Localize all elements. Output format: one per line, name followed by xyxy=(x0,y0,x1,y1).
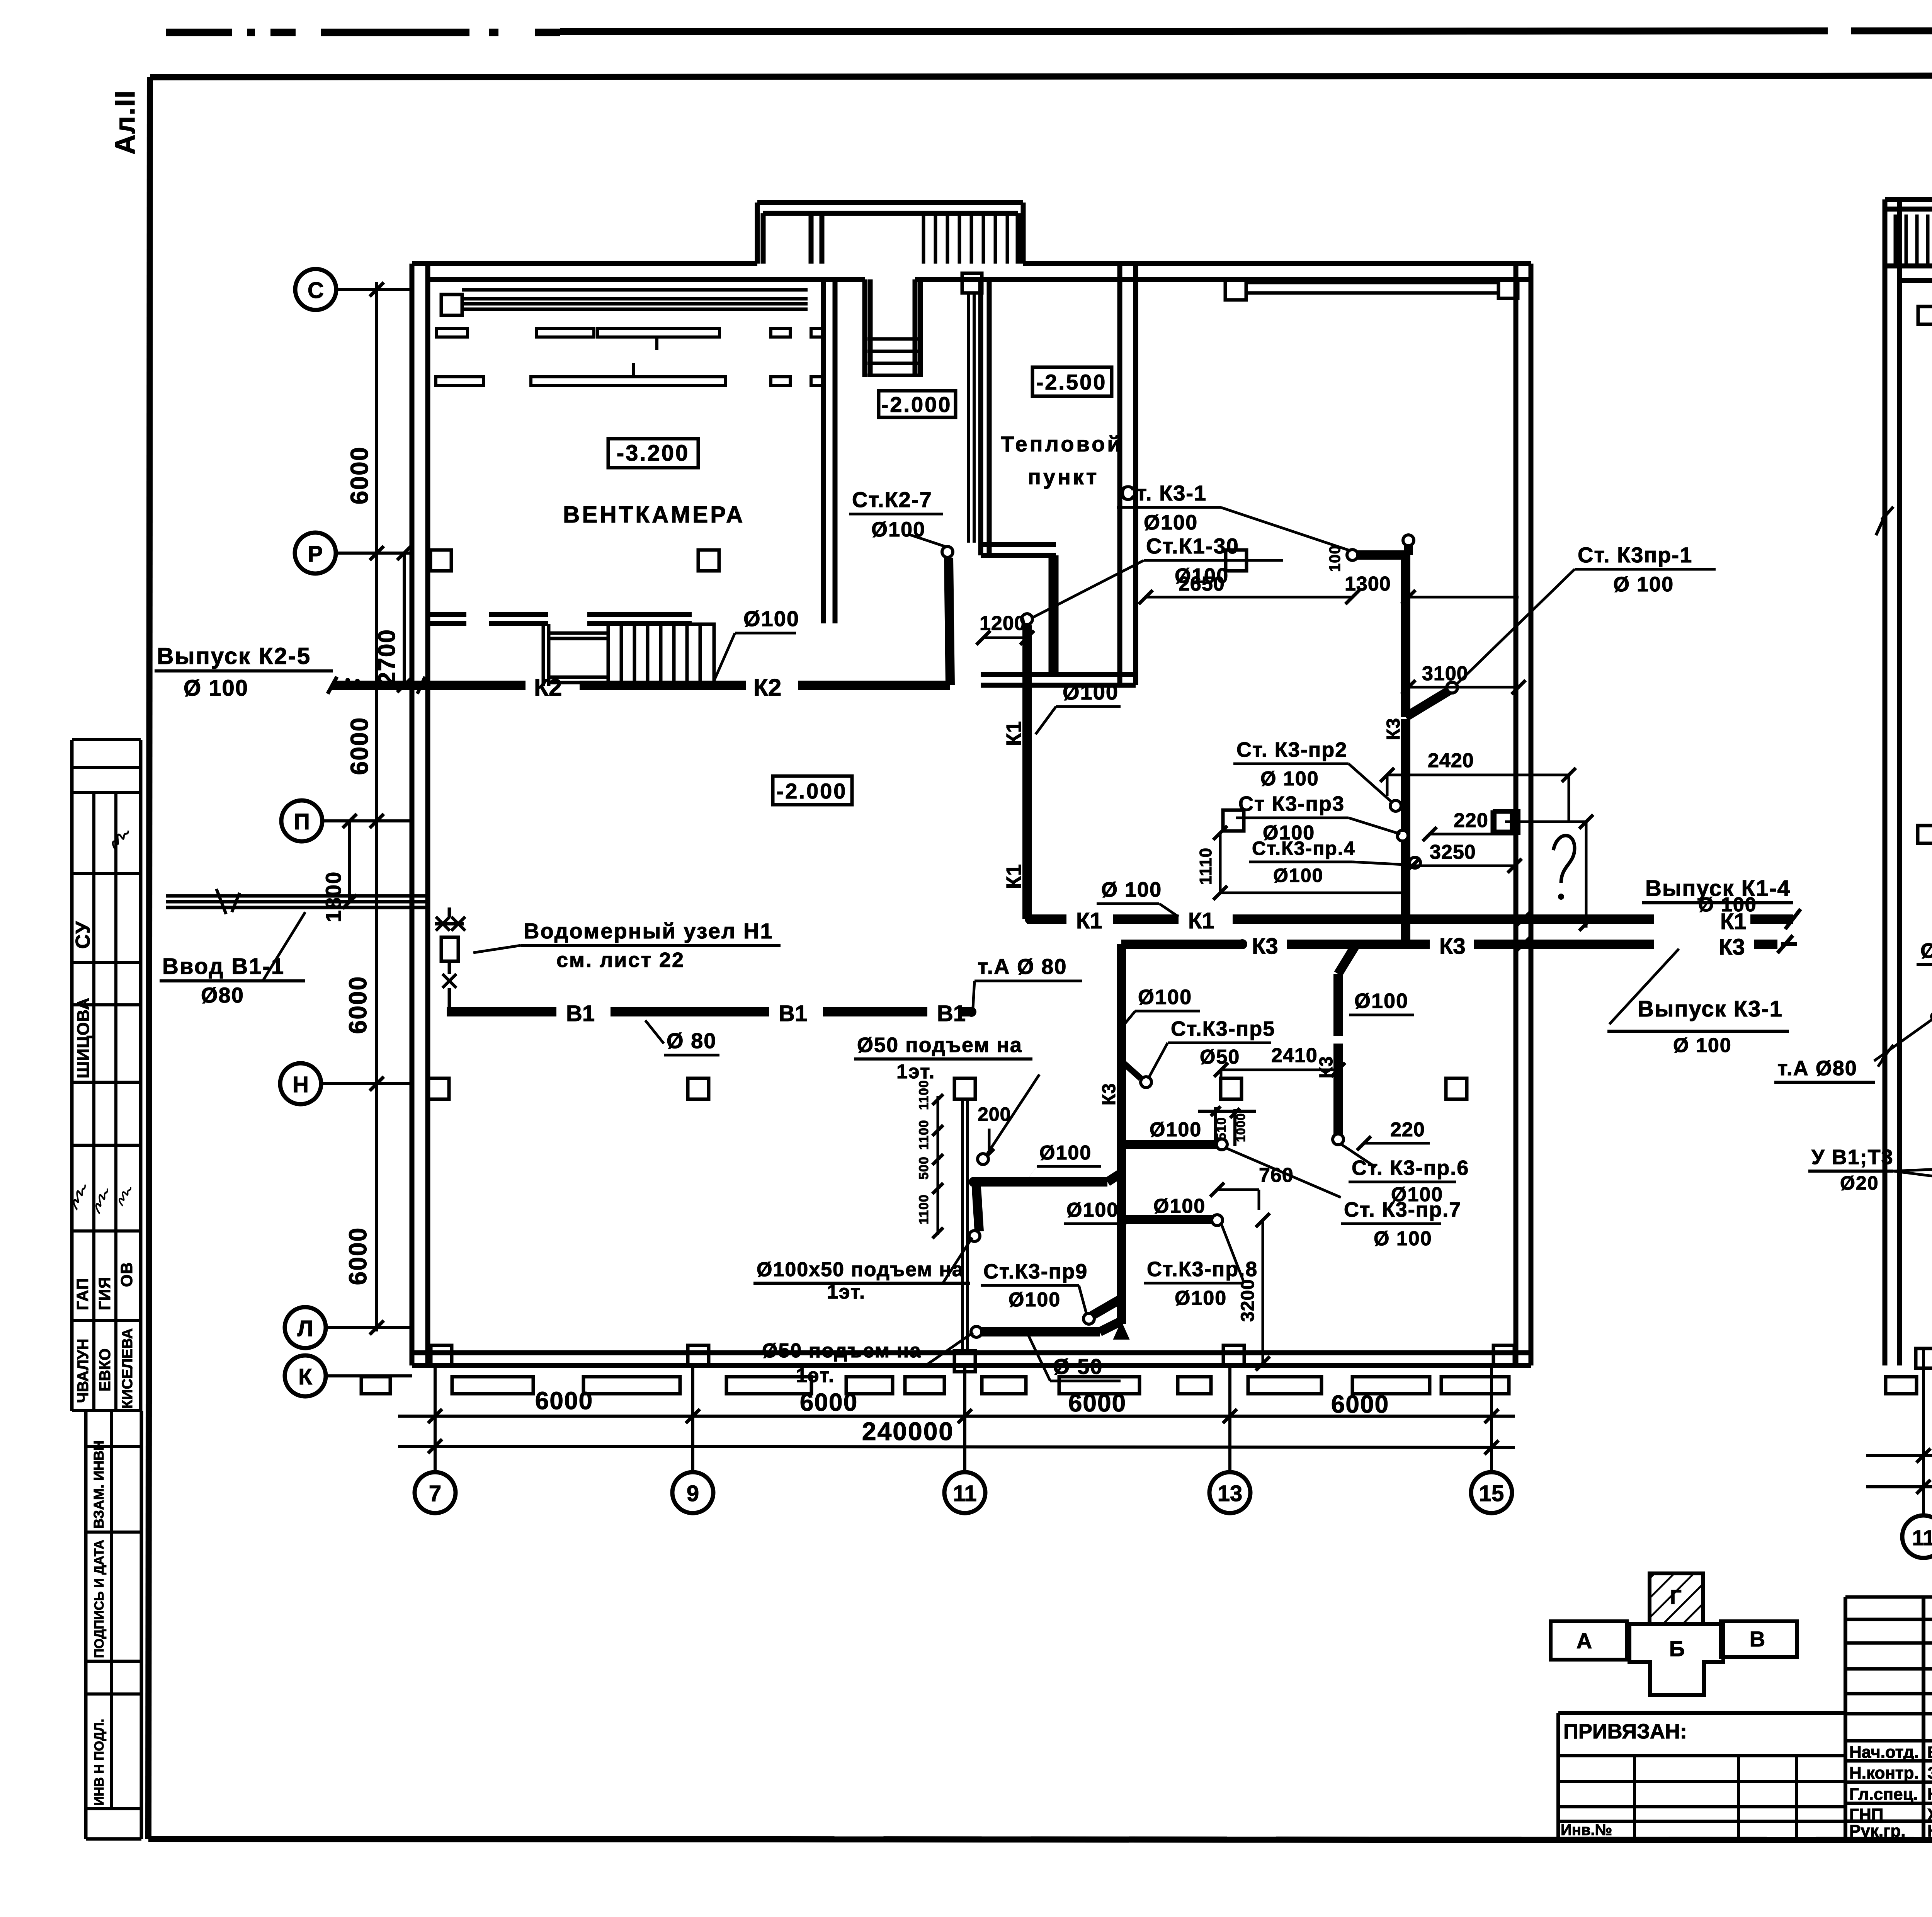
label St.K3-pr4 xyxy=(1249,838,1411,886)
column right wall with dim xyxy=(1495,811,1586,833)
title block personnel table xyxy=(1845,1597,1932,1839)
svg-text:Ø 100: Ø 100 xyxy=(1673,1034,1732,1057)
title block personnel names xyxy=(1849,1743,1932,1840)
label St.K3-pr.6 xyxy=(1341,1144,1469,1206)
svg-text:В1: В1 xyxy=(779,1001,807,1026)
svg-text:Н.контр.: Н.контр. xyxy=(1849,1764,1919,1783)
right plan foundation dashes xyxy=(1886,1377,1932,1394)
svg-text:К3: К3 xyxy=(1099,1083,1119,1105)
svg-text:Ø 80: Ø 80 xyxy=(667,1028,716,1053)
svg-text:К1: К1 xyxy=(1002,721,1026,746)
label St.K3-pr9 xyxy=(981,1260,1121,1324)
axis &#1053; xyxy=(280,1063,412,1104)
svg-text:Г: Г xyxy=(1670,1586,1681,1609)
svg-text:Тепловой: Тепловой xyxy=(1001,432,1123,456)
vent chamber plenum band xyxy=(441,290,808,315)
vent chamber stair xyxy=(543,624,714,686)
svg-text:К: К xyxy=(298,1364,312,1389)
svg-text:Ø100: Ø100 xyxy=(1354,989,1408,1013)
label St.K3-pr.7 xyxy=(1341,1198,1461,1250)
riser K1 vertical xyxy=(1002,614,1032,919)
bottom dimension line 6000 row xyxy=(398,1387,1515,1423)
svg-text:11: 11 xyxy=(953,1481,976,1506)
columns bottom row xyxy=(431,1345,1514,1366)
vent chamber bottom wall xyxy=(428,615,692,623)
dimension 1800 xyxy=(321,814,357,922)
svg-text:Ø100: Ø100 xyxy=(1273,865,1323,886)
svg-text:ПОДПИСЬ И ДАТА: ПОДПИСЬ И ДАТА xyxy=(92,1540,107,1658)
svg-text:ПРИВЯЗАН:: ПРИВЯЗАН: xyxy=(1563,1720,1687,1743)
svg-text:6000: 6000 xyxy=(1068,1389,1126,1417)
svg-text:6000: 6000 xyxy=(1331,1390,1389,1418)
svg-text:500: 500 xyxy=(917,1156,931,1180)
privyazan box xyxy=(1558,1713,1845,1839)
svg-text:Рук.гр.: Рук.гр. xyxy=(1849,1822,1906,1840)
svg-text:Ø100: Ø100 xyxy=(1150,1119,1202,1141)
svg-text:ШИЦОВА: ШИЦОВА xyxy=(74,997,93,1078)
svg-text:Ø 100: Ø 100 xyxy=(1698,894,1757,916)
svg-text:2420: 2420 xyxy=(1428,749,1474,772)
svg-text:Ø100: Ø100 xyxy=(1063,680,1119,704)
right plan top-left stair xyxy=(1885,199,1932,266)
svg-text:К1: К1 xyxy=(1188,908,1214,933)
svg-text:3250: 3250 xyxy=(1430,841,1476,863)
left plan bottom wall beam xyxy=(412,1353,1531,1365)
axis &#1057; xyxy=(295,269,412,310)
stamp rotated texts xyxy=(72,921,136,1806)
svg-text:П: П xyxy=(294,809,310,834)
svg-text:КУЗНЕЦОВА: КУЗНЕЦОВА xyxy=(1927,1822,1932,1840)
top entrance block xyxy=(757,203,1023,264)
label diam100 on K2 xyxy=(713,606,799,683)
svg-text:пункт: пункт xyxy=(1028,465,1099,489)
branch St.K3-1 horizontal xyxy=(1347,535,1414,560)
svg-text:Ст.К1-30: Ст.К1-30 xyxy=(1146,534,1239,558)
svg-text:Л: Л xyxy=(298,1316,313,1341)
svg-text:т.А Ø80: т.А Ø80 xyxy=(1777,1057,1857,1080)
svg-text:6000: 6000 xyxy=(800,1388,858,1416)
svg-text:Водомерный узел Н1: Водомерный узел Н1 xyxy=(524,919,774,943)
svg-text:КИСЕЛЕВА: КИСЕЛЕВА xyxy=(119,1328,136,1409)
dims 510 1000 xyxy=(1198,1106,1256,1146)
vent chamber right wall xyxy=(823,279,835,623)
jog down from branch L1 xyxy=(969,1182,980,1241)
svg-text:2650: 2650 xyxy=(1179,573,1225,595)
label diam50 bottom xyxy=(1028,1334,1121,1381)
svg-text:Нач.отд.: Нач.отд. xyxy=(1849,1743,1919,1762)
left vertical dimension line xyxy=(344,282,384,1335)
svg-text:6000: 6000 xyxy=(345,717,373,775)
label St.K3-1 xyxy=(1117,481,1350,551)
break mark on left wall xyxy=(1876,507,1893,535)
svg-text:В1: В1 xyxy=(937,1001,966,1026)
svg-text:Ø 100: Ø 100 xyxy=(1613,573,1674,596)
axis &#1051; xyxy=(285,1307,412,1348)
branch left L1 from col11 riser xyxy=(969,1142,1121,1187)
axis &#1055; xyxy=(281,800,412,841)
left plan outer left wall xyxy=(412,264,428,1365)
svg-text:К3: К3 xyxy=(1252,934,1278,959)
axis 11 bottom xyxy=(944,1365,985,1513)
svg-text:220: 220 xyxy=(1390,1119,1425,1141)
label diam50 podjem top xyxy=(854,1033,1032,1083)
svg-text:ВЕНТКАМЕРА: ВЕНТКАМЕРА xyxy=(563,502,745,528)
vent equipment row 1 xyxy=(437,329,824,350)
svg-text:ВЕПРИКСКИХ: ВЕПРИКСКИХ xyxy=(1927,1743,1932,1761)
svg-text:1эт.: 1эт. xyxy=(796,1364,835,1387)
svg-text:А: А xyxy=(1577,1629,1592,1653)
tA connection right plan xyxy=(1774,1011,1932,1082)
dimension 1300 xyxy=(1345,573,1519,604)
svg-text:Ст.К3-пр.4: Ст.К3-пр.4 xyxy=(1252,838,1355,859)
level mark -3.200 xyxy=(608,439,698,468)
svg-text:К3: К3 xyxy=(1439,934,1466,959)
label St.K3pr-1 xyxy=(1456,543,1716,685)
svg-text:Ø 100: Ø 100 xyxy=(1260,768,1319,790)
svg-text:ОВ: ОВ xyxy=(117,1262,136,1287)
svg-text:Н: Н xyxy=(293,1072,309,1097)
svg-text:т.А Ø 80: т.А Ø 80 xyxy=(978,954,1067,979)
svg-text:К1: К1 xyxy=(1002,864,1026,889)
svg-text:1эт.: 1эт. xyxy=(896,1061,935,1083)
bottom branch to riser xyxy=(971,1321,1121,1337)
svg-text:Ø50 подъем на: Ø50 подъем на xyxy=(857,1033,1022,1057)
label diam100 pr6 branch xyxy=(1349,989,1414,1015)
svg-text:15: 15 xyxy=(1479,1481,1504,1506)
svg-text:Р: Р xyxy=(308,541,323,567)
svg-text:У В1;Т3: У В1;Т3 xyxy=(1811,1146,1894,1169)
right plan top wall xyxy=(1885,266,1932,281)
pipe K2 main xyxy=(332,674,950,701)
svg-text:ЕВКО: ЕВКО xyxy=(97,1348,114,1391)
svg-text:Ø 100: Ø 100 xyxy=(1101,878,1162,901)
svg-text:Ø100: Ø100 xyxy=(1066,1199,1119,1221)
svg-text:1200: 1200 xyxy=(980,612,1026,635)
svg-text:ЗЕМСКОВА: ЗЕМСКОВА xyxy=(1927,1764,1932,1783)
left plan right wall xyxy=(1516,264,1531,1365)
svg-text:см. лист 22: см. лист 22 xyxy=(556,948,685,972)
svg-text:Ст. К3-пр.7: Ст. К3-пр.7 xyxy=(1344,1198,1461,1221)
svg-text:Ø50: Ø50 xyxy=(1200,1046,1240,1068)
label diam80 on V1 xyxy=(645,1020,719,1055)
svg-text:240000: 240000 xyxy=(862,1417,954,1445)
level mark -2.000 lower hall xyxy=(773,776,852,805)
dimension 2700 xyxy=(374,546,411,692)
svg-text:2700: 2700 xyxy=(374,629,400,685)
svg-text:13: 13 xyxy=(1218,1481,1243,1506)
dimension 200 xyxy=(978,1103,1011,1159)
axis 9 bottom xyxy=(672,1365,713,1513)
pipe K3 main horizontal xyxy=(1121,934,1797,960)
axis 15 bottom xyxy=(1471,1365,1512,1513)
svg-text:7: 7 xyxy=(429,1481,441,1506)
svg-text:Ø100: Ø100 xyxy=(1138,986,1192,1009)
question mark annotation xyxy=(1505,815,1593,931)
label Ал.II rotated near top-left frame xyxy=(110,90,141,155)
label diam100 on cluster riser xyxy=(1124,986,1200,1024)
svg-text:ГАП: ГАП xyxy=(73,1278,92,1310)
pipe K2 outlet break marks xyxy=(328,677,360,694)
label St.K3-pr3 xyxy=(1236,792,1400,844)
svg-text:Ø50 подъем на: Ø50 подъем на xyxy=(762,1340,922,1362)
pipe K1 main horizontal xyxy=(1025,908,1801,934)
label Vypusk K3-1 xyxy=(1607,949,1789,1057)
svg-text:Ст. К3-1: Ст. К3-1 xyxy=(1120,481,1207,505)
svg-text:1300: 1300 xyxy=(1345,573,1391,595)
svg-text:Ø 100: Ø 100 xyxy=(1374,1227,1432,1250)
svg-text:Ø 50: Ø 50 xyxy=(1053,1354,1103,1379)
riser col11 double line xyxy=(954,1078,975,1372)
riser St.K2-7 xyxy=(849,487,953,685)
svg-text:3200: 3200 xyxy=(1238,1279,1258,1322)
svg-text:Ø20: Ø20 xyxy=(1840,1172,1879,1194)
svg-text:В: В xyxy=(1750,1627,1765,1651)
svg-text:ЧВАЛУН: ЧВАЛУН xyxy=(75,1339,92,1403)
branch right R1 to pr7 xyxy=(1121,1119,1341,1197)
svg-text:3100: 3100 xyxy=(1422,662,1468,685)
label diam100x50 podjem xyxy=(753,1238,972,1303)
dimension 220 upper xyxy=(1423,809,1515,841)
svg-text:К2: К2 xyxy=(534,674,562,701)
column 11 riser stand pipe xyxy=(969,293,974,543)
key plan xyxy=(1551,1573,1797,1695)
dimension 2420 xyxy=(1380,749,1576,823)
dimension 2650 xyxy=(1139,545,1359,604)
svg-text:Ø100: Ø100 xyxy=(1009,1289,1061,1311)
svg-text:Ø100: Ø100 xyxy=(871,518,925,541)
svg-text:ИНВ Н ПОДЛ.: ИНВ Н ПОДЛ. xyxy=(92,1719,107,1806)
svg-text:760: 760 xyxy=(1259,1164,1294,1187)
U label leaders xyxy=(1808,1146,1932,1194)
right plan left wall xyxy=(1885,199,1900,1365)
dimension 1110 vertical xyxy=(1196,826,1410,900)
svg-text:1эт.: 1эт. xyxy=(827,1281,866,1303)
svg-text:Ст.К2-7: Ст.К2-7 xyxy=(852,487,932,512)
svg-text:220: 220 xyxy=(1454,809,1488,832)
svg-text:Ст К3-пр3: Ст К3-пр3 xyxy=(1238,792,1345,815)
label Vvod V1-1 xyxy=(160,912,305,1007)
right plan axis circles xyxy=(1902,1349,1932,1558)
columns row N axis xyxy=(428,1078,1467,1099)
columns row P axis xyxy=(430,273,1247,571)
dimension 3100 xyxy=(1401,662,1526,694)
svg-text:К3: К3 xyxy=(1383,718,1404,740)
left stamp table (vertical form) xyxy=(72,740,141,1839)
vent equipment row 2 xyxy=(436,363,824,386)
svg-text:Ø100: Ø100 xyxy=(1144,511,1198,534)
svg-text:Выпуск К3-1: Выпуск К3-1 xyxy=(1638,996,1783,1021)
node with leader to Q50 label xyxy=(978,1074,1039,1165)
riser col11 dim chain xyxy=(917,1080,943,1238)
label St.K3-pr2 xyxy=(1233,738,1393,803)
dimension 3250 xyxy=(1405,841,1522,873)
svg-text:К1: К1 xyxy=(1076,908,1102,933)
bottom dimension line 240000 xyxy=(398,1417,1515,1454)
svg-text:Ал.II: Ал.II xyxy=(110,90,141,155)
label Vodomerny uzel xyxy=(473,919,781,972)
svg-text:-2.500: -2.500 xyxy=(1036,370,1107,394)
svg-text:Гл.спец.: Гл.спец. xyxy=(1849,1785,1918,1804)
svg-text:1100: 1100 xyxy=(917,1194,931,1224)
top entrance stair hatch xyxy=(923,213,1019,264)
pipe V1 main horizontal xyxy=(447,1001,976,1026)
svg-text:Ø100: Ø100 xyxy=(743,606,799,631)
svg-text:100: 100 xyxy=(1327,545,1344,572)
label Vypusk K2-5 xyxy=(155,643,333,701)
label diam100 right of K1 riser xyxy=(1036,680,1121,734)
svg-text:11: 11 xyxy=(1912,1525,1932,1550)
svg-text:Инв.№: Инв.№ xyxy=(1561,1822,1612,1839)
stair corridor below entrance xyxy=(865,279,920,377)
right plan bottom dims xyxy=(1866,1445,1932,1494)
dimension 2410 xyxy=(1214,1044,1345,1090)
svg-text:Ø100: Ø100 xyxy=(1175,1287,1227,1309)
svg-text:Ø100: Ø100 xyxy=(1153,1195,1206,1217)
sheet outer top edge line xyxy=(166,30,1932,32)
columns row Pi axis xyxy=(1223,810,1512,831)
svg-text:ГИЯ: ГИЯ xyxy=(95,1277,114,1310)
svg-text:6000: 6000 xyxy=(535,1387,593,1415)
riser K3 pr cluster vertical xyxy=(1383,555,1458,944)
svg-text:-3.200: -3.200 xyxy=(617,441,689,466)
svg-text:200: 200 xyxy=(978,1103,1011,1125)
dimension 3200 vertical xyxy=(1238,1213,1270,1371)
svg-text:СУ: СУ xyxy=(72,921,94,949)
svg-text:КИРИЛЛОВА: КИРИЛЛОВА xyxy=(1927,1785,1932,1804)
svg-text:Ø80: Ø80 xyxy=(201,983,244,1007)
room label heat point xyxy=(1001,432,1123,489)
svg-text:С: С xyxy=(308,278,324,303)
label St.K3-pr.8 xyxy=(1144,1223,1258,1309)
label diam100 on K1 main xyxy=(1097,878,1179,917)
svg-text:Ст. К3-пр2: Ст. К3-пр2 xyxy=(1236,738,1347,761)
svg-text:-2.000: -2.000 xyxy=(777,779,847,803)
label tA diam80 xyxy=(973,954,1082,1008)
level mark -2.500 xyxy=(1032,367,1112,396)
branch right R2 xyxy=(1064,1195,1223,1226)
left pipe channel xyxy=(1916,306,1932,1368)
dimension 1200 at K1 riser xyxy=(976,612,1034,645)
svg-text:1100: 1100 xyxy=(917,1080,931,1110)
svg-text:-2.000: -2.000 xyxy=(881,392,952,417)
svg-text:2410: 2410 xyxy=(1271,1044,1318,1067)
svg-text:Выпуск К2-5: Выпуск К2-5 xyxy=(157,643,311,669)
axis &#1050; xyxy=(285,1355,412,1396)
svg-text:Ø40: Ø40 xyxy=(1920,939,1932,962)
branch K3 pr6 vertical xyxy=(1316,944,1356,1145)
svg-text:Ø100: Ø100 xyxy=(1039,1142,1092,1164)
nodes on K3 riser xyxy=(1390,800,1420,868)
riser K3 main cluster vertical xyxy=(1099,944,1128,1338)
axis 13 bottom xyxy=(1209,1365,1250,1513)
heat point walls xyxy=(981,264,1136,685)
left plan top-right beam xyxy=(1225,279,1518,300)
svg-text:Ст.К3-пр9: Ст.К3-пр9 xyxy=(983,1260,1088,1283)
axis &#1056; xyxy=(295,533,412,574)
left plan top wall xyxy=(412,264,1531,279)
left plan foundation dashed strip xyxy=(361,1377,1509,1394)
label St.K3-pr5 xyxy=(1122,1017,1275,1088)
svg-text:ВЗАМ. ИНВН: ВЗАМ. ИНВН xyxy=(91,1440,107,1529)
svg-text:Ст. К3-пр.6: Ст. К3-пр.6 xyxy=(1352,1156,1469,1180)
svg-text:Б: Б xyxy=(1669,1636,1685,1661)
svg-text:К3: К3 xyxy=(1719,935,1745,960)
svg-text:6000: 6000 xyxy=(344,976,372,1034)
label Vypusk K1-4 xyxy=(1642,876,1793,916)
svg-text:В1: В1 xyxy=(566,1001,595,1026)
svg-text:1100: 1100 xyxy=(917,1120,931,1150)
room label Ventkamera xyxy=(563,502,745,528)
label St.K1-30 xyxy=(1032,534,1283,618)
axis 7 bottom xyxy=(415,1365,456,1513)
dimension 760 xyxy=(1210,1164,1294,1210)
svg-text:К2: К2 xyxy=(753,674,781,701)
level mark -2.000 xyxy=(879,391,956,417)
stamp signatures xyxy=(73,826,131,1215)
svg-text:1110: 1110 xyxy=(1196,848,1215,885)
inlet V1-1 pipe xyxy=(166,889,429,914)
water meter unit xyxy=(435,907,465,1012)
label diam50 podjem bottom xyxy=(759,1333,973,1387)
dimension 220 lower xyxy=(1357,1119,1430,1150)
svg-text:6000: 6000 xyxy=(345,446,373,504)
label diam40 bundle xyxy=(1917,939,1932,989)
svg-text:Ø 100: Ø 100 xyxy=(184,676,248,701)
svg-text:6000: 6000 xyxy=(344,1227,372,1285)
svg-text:9: 9 xyxy=(687,1481,699,1506)
svg-text:Ø100х50 подъем на: Ø100х50 подъем на xyxy=(757,1258,964,1281)
svg-text:Ст.К3-пр5: Ст.К3-пр5 xyxy=(1171,1017,1275,1040)
svg-text:Ст. К3пр-1: Ст. К3пр-1 xyxy=(1578,543,1692,567)
